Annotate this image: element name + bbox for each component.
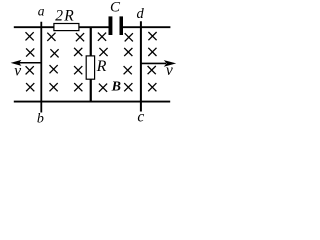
svg-text:b: b (37, 111, 44, 126)
svg-text:v: v (166, 62, 173, 79)
field cross row3 (26, 65, 156, 74)
svg-text:C: C (110, 0, 121, 15)
svg-text:d: d (137, 6, 145, 22)
field cross row2 (26, 48, 156, 58)
svg-text:c: c (137, 109, 144, 126)
svg-text:B: B (111, 80, 121, 95)
conducting bar dc (right, sliding) (140, 21, 142, 111)
conducting bar ab (left, sliding) (40, 22, 42, 113)
field cross row1 (26, 32, 157, 41)
capacitor C right plate (120, 16, 124, 35)
resistor R (86, 56, 94, 79)
wire middle branch lower (90, 79, 92, 101)
wire top rail right segment (123, 26, 171, 28)
field cross row4 (26, 83, 156, 92)
svg-text:v: v (14, 63, 21, 80)
wire middle branch upper (90, 27, 92, 56)
wire bottom rail (14, 101, 170, 103)
resistor 2R (54, 24, 79, 31)
capacitor C left plate (109, 16, 113, 35)
wire top rail left segment (14, 26, 109, 28)
velocity arrow right (bar dc moving right) (141, 60, 176, 67)
svg-text:a: a (38, 4, 45, 19)
svg-text:R: R (96, 58, 107, 75)
velocity arrow left (bar ab moving left) (11, 60, 42, 66)
svg-text:2R: 2R (55, 8, 74, 25)
